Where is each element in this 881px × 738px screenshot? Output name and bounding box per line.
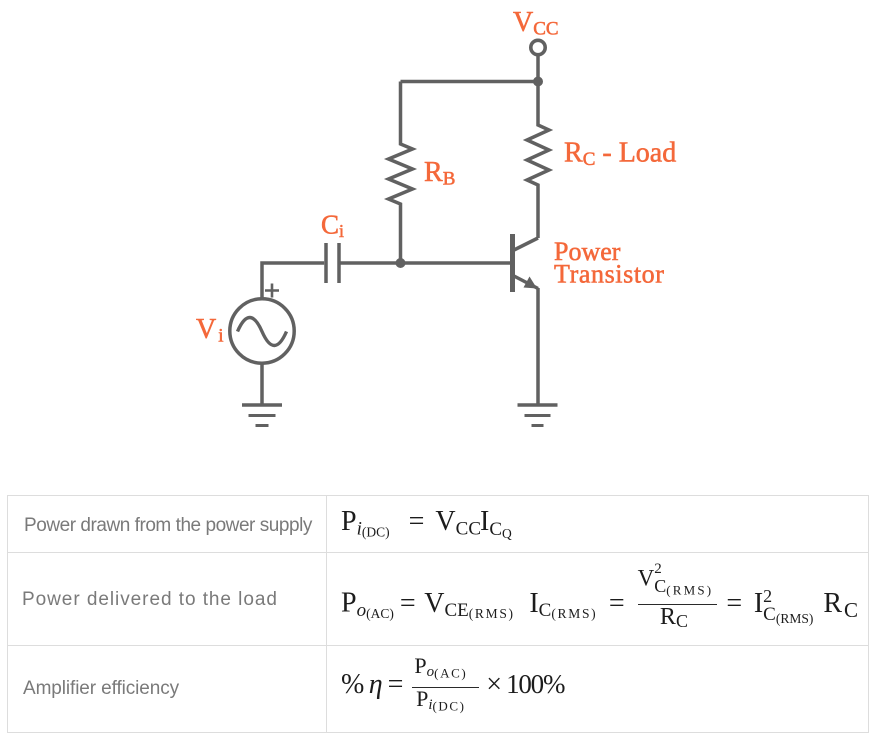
plus sign — [265, 284, 279, 298]
source sine wave — [238, 318, 287, 346]
junction node at base — [396, 258, 406, 268]
capacitor C_i plates — [324, 243, 328, 283]
circuit schematic — [0, 0, 881, 496]
ground left — [242, 403, 282, 407]
svg-text:Transistor: Transistor — [554, 260, 665, 289]
wire top horizontal — [401, 80, 539, 84]
row labels — [24, 515, 312, 537]
wire base horizontal — [339, 261, 510, 265]
svg-text:VCC: VCC — [513, 7, 559, 40]
transistor Q1 collector diagonal — [513, 238, 538, 251]
formula 3 — [341, 655, 564, 713]
svg-text:RC - Load: RC - Load — [564, 138, 676, 171]
formula 2 — [341, 562, 858, 630]
transistor Q1 base bar — [510, 234, 515, 292]
wire source to capacitor — [262, 263, 324, 299]
svg-text:RB: RB — [424, 157, 455, 190]
resistor R_C — [527, 82, 549, 239]
transistor emitter arrow — [524, 277, 538, 289]
svg-text:Ci: Ci — [321, 210, 344, 242]
transistor Q1 emitter diagonal — [513, 276, 538, 289]
junction node at Vcc — [533, 77, 543, 87]
wire Vcc terminal to junction — [536, 55, 540, 82]
source V_i circle — [230, 299, 294, 363]
ground right — [518, 403, 558, 407]
svg-text:Vi: Vi — [196, 314, 224, 347]
wire source to ground — [260, 364, 264, 405]
Vcc terminal — [531, 40, 545, 54]
table — [7, 495, 868, 732]
wire emitter vertical — [536, 288, 540, 405]
resistor R_B — [389, 82, 413, 264]
formula 1: P_i(DC) = Vcc Icq — [341, 508, 512, 540]
